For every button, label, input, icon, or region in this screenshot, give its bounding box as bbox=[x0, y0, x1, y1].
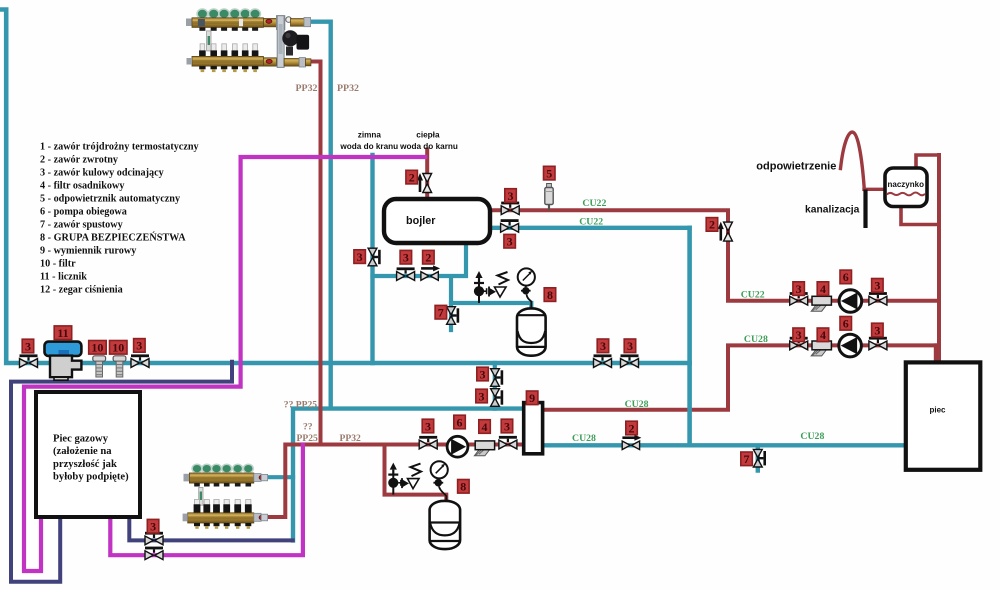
svg-text:2: 2 bbox=[629, 421, 635, 435]
svg-text:CU28: CU28 bbox=[744, 334, 768, 345]
svg-text:7 - zawór spustowy: 7 - zawór spustowy bbox=[40, 220, 123, 231]
svg-text:ciepła: ciepła bbox=[416, 131, 440, 140]
svg-text:6 - pompa obiegowa: 6 - pompa obiegowa bbox=[40, 207, 127, 218]
svg-text:3: 3 bbox=[25, 339, 31, 353]
svg-text:3: 3 bbox=[504, 419, 510, 433]
svg-text:byłoby podpięte): byłoby podpięte) bbox=[53, 472, 129, 483]
svg-text:9 - wymiennik rurowy: 9 - wymiennik rurowy bbox=[40, 246, 136, 257]
svg-text:8: 8 bbox=[460, 480, 466, 494]
svg-text:11 - licznik: 11 - licznik bbox=[40, 272, 87, 283]
svg-text:3 - zawór kulowy odcinający: 3 - zawór kulowy odcinający bbox=[40, 168, 164, 179]
svg-text:3: 3 bbox=[874, 323, 880, 337]
svg-text:3: 3 bbox=[357, 250, 363, 264]
svg-text:3: 3 bbox=[425, 419, 431, 433]
svg-text:CU28: CU28 bbox=[572, 433, 596, 444]
svg-text:woda do kranu: woda do kranu bbox=[339, 142, 398, 151]
svg-text:3: 3 bbox=[479, 389, 485, 403]
svg-text:4: 4 bbox=[482, 420, 488, 434]
svg-text:naczynko: naczynko bbox=[888, 180, 925, 189]
svg-text:8: 8 bbox=[547, 288, 553, 302]
svg-text:4 - filtr osadnikowy: 4 - filtr osadnikowy bbox=[40, 181, 124, 192]
svg-text:??: ?? bbox=[303, 422, 313, 433]
svg-text:PP25: PP25 bbox=[297, 433, 319, 444]
svg-text:odpowietrzenie: odpowietrzenie bbox=[756, 160, 836, 172]
svg-text:3: 3 bbox=[150, 520, 156, 534]
svg-text:10 - filtr: 10 - filtr bbox=[40, 259, 76, 270]
svg-text:2: 2 bbox=[709, 218, 715, 232]
svg-text:3: 3 bbox=[480, 367, 486, 381]
svg-text:zimna: zimna bbox=[358, 131, 382, 140]
svg-text:2 - zawór zwrotny: 2 - zawór zwrotny bbox=[40, 155, 118, 166]
svg-text:PP32: PP32 bbox=[296, 83, 318, 94]
svg-text:4: 4 bbox=[820, 282, 826, 296]
svg-text:CU22: CU22 bbox=[579, 217, 603, 228]
svg-text:3: 3 bbox=[136, 339, 142, 353]
svg-text:CU22: CU22 bbox=[582, 198, 606, 209]
svg-text:12 - zegar ciśnienia: 12 - zegar ciśnienia bbox=[40, 285, 123, 296]
svg-text:CU28: CU28 bbox=[625, 399, 649, 410]
svg-text:3: 3 bbox=[507, 235, 513, 249]
svg-text:2: 2 bbox=[409, 170, 415, 184]
svg-text:3: 3 bbox=[600, 339, 606, 353]
svg-text:(założenie na: (założenie na bbox=[53, 446, 112, 457]
svg-text:10: 10 bbox=[91, 341, 103, 355]
svg-text:7: 7 bbox=[744, 452, 750, 466]
svg-text:PP32: PP32 bbox=[340, 433, 362, 444]
svg-text:6: 6 bbox=[457, 415, 463, 429]
svg-text:3: 3 bbox=[627, 339, 633, 353]
svg-text:CU28: CU28 bbox=[800, 431, 824, 442]
svg-text:3: 3 bbox=[796, 328, 802, 342]
svg-text:Piec gazowy: Piec gazowy bbox=[53, 434, 109, 445]
svg-text:CU22: CU22 bbox=[741, 289, 765, 300]
svg-text:5 - odpowietrznik automatyczny: 5 - odpowietrznik automatyczny bbox=[40, 194, 180, 205]
svg-text:9: 9 bbox=[529, 391, 535, 405]
svg-text:7: 7 bbox=[438, 306, 444, 320]
svg-text:1 - zawór trójdrożny termostat: 1 - zawór trójdrożny termostatyczny bbox=[40, 142, 199, 153]
svg-text:3: 3 bbox=[508, 189, 514, 203]
svg-text:woda do karnu: woda do karnu bbox=[399, 142, 458, 151]
svg-text:8 - GRUPA BEZPIECZEŃSTWA: 8 - GRUPA BEZPIECZEŃSTWA bbox=[40, 232, 186, 244]
svg-text:4: 4 bbox=[820, 328, 826, 342]
svg-text:PP32: PP32 bbox=[337, 83, 359, 94]
svg-text:10: 10 bbox=[112, 341, 124, 355]
svg-text:przyszłość jak: przyszłość jak bbox=[53, 459, 117, 470]
svg-text:3: 3 bbox=[796, 282, 802, 296]
svg-text:bojler: bojler bbox=[406, 215, 436, 227]
svg-text:3: 3 bbox=[403, 251, 409, 265]
svg-text:6: 6 bbox=[843, 317, 849, 331]
svg-text:5: 5 bbox=[546, 166, 552, 180]
svg-text:piec: piec bbox=[930, 406, 947, 415]
svg-text:kanalizacja: kanalizacja bbox=[805, 205, 860, 216]
svg-text:2: 2 bbox=[425, 251, 431, 265]
svg-text:11: 11 bbox=[57, 326, 68, 340]
svg-text:?? PP25: ?? PP25 bbox=[284, 400, 318, 411]
svg-text:6: 6 bbox=[843, 270, 849, 284]
svg-text:3: 3 bbox=[874, 279, 880, 293]
